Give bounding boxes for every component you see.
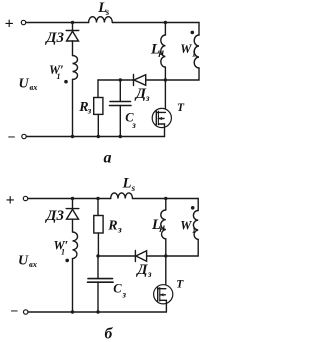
svg-text:s: s [105,7,110,17]
svg-text:Д: Д [135,262,148,278]
svg-text:а: а [104,150,112,167]
svg-text:вх: вх [30,82,39,92]
svg-text:U: U [18,254,29,269]
svg-text:Д3: Д3 [44,208,64,224]
svg-text:1: 1 [192,50,196,59]
svg-text:R: R [107,219,117,234]
svg-text:з: з [147,269,152,279]
svg-text:з: з [122,290,127,300]
svg-text:Д: Д [134,86,147,102]
svg-text:з: з [117,226,122,236]
svg-text:б: б [105,326,114,342]
svg-text:1: 1 [192,226,196,235]
svg-text:−: − [7,131,15,146]
svg-text:L: L [122,176,132,192]
svg-text:W: W [180,42,192,56]
svg-text:−: − [10,305,18,320]
svg-text:U: U [19,77,30,92]
svg-text:+: + [4,15,13,32]
svg-text:1: 1 [61,248,65,257]
svg-text:C: C [113,282,122,296]
svg-text:з: з [131,120,136,130]
svg-text:+: + [5,192,14,209]
svg-text:1: 1 [57,72,61,81]
svg-text:з: з [145,93,150,103]
svg-text:W: W [180,219,192,233]
svg-text:T: T [177,102,185,114]
svg-text:з: з [87,105,92,115]
svg-text:s: s [131,183,136,193]
svg-text:Д3: Д3 [44,30,64,46]
svg-text:μ: μ [158,48,164,58]
svg-text:вх: вх [29,259,38,269]
svg-text:T: T [176,278,184,290]
svg-text:μ: μ [159,223,165,233]
